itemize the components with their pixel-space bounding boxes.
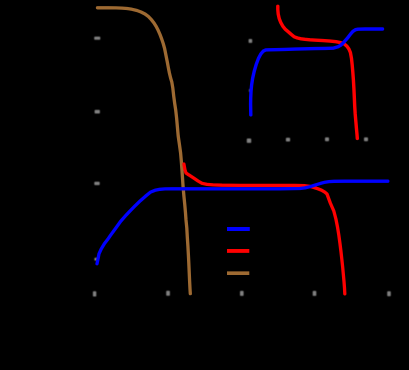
main red curve (184, 164, 345, 294)
legend handle: brown (227, 271, 249, 275)
main axis tick label smudges (left) (94, 37, 100, 261)
main axis tick label smudges (bottom) (93, 291, 391, 297)
inset axis tick label smudges (bottom) (247, 137, 368, 143)
inset blue curve (251, 29, 383, 115)
legend handle: blue (227, 227, 250, 231)
main brown curve (98, 8, 191, 294)
inset red curve (278, 6, 358, 138)
inset axis tick label smudges (left) (249, 39, 253, 92)
main blue curve (97, 181, 388, 264)
legend handle: red (227, 249, 249, 253)
